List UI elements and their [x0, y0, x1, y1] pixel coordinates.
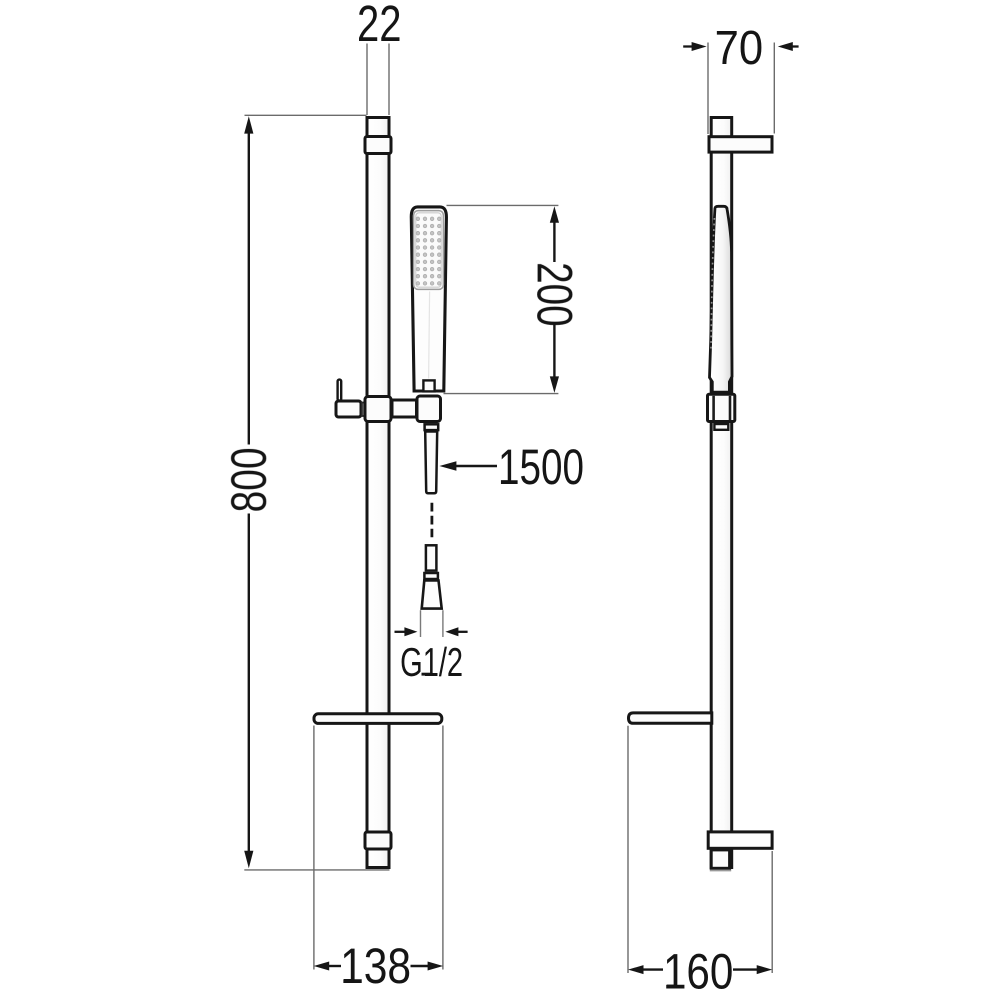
dimension 200 leader top: [447, 204, 559, 206]
extension line 160 right: [771, 851, 773, 973]
thread outline left: [420, 610, 422, 637]
dimension 800 line lower segment: [248, 514, 250, 852]
dimension 800 arrow up: [244, 116, 253, 133]
extension line 22 right: [388, 44, 390, 116]
dimension G1/2 left arrow: [395, 631, 406, 633]
extension line 138 right: [442, 726, 444, 970]
hose upper segment: [425, 432, 437, 494]
holder arm: [392, 400, 417, 417]
holder hose nub (side): [714, 424, 728, 430]
dimension 70 left arrow: [683, 45, 692, 47]
holder (side): [708, 394, 735, 421]
bottom flange (front): [365, 832, 391, 849]
leader line top (800 dim, upper): [245, 114, 367, 116]
top flange (front): [365, 137, 391, 154]
bottom nub (side): [711, 850, 729, 868]
dimension 200 line upper: [553, 222, 555, 263]
slider block on rail: [365, 397, 391, 422]
extension line 138 left: [313, 726, 315, 970]
holder inner right line: [729, 396, 732, 421]
holder inner left line: [712, 396, 715, 421]
svg-text:22: 22: [357, 0, 402, 52]
dimension 138 left arrow: [314, 962, 330, 971]
extension line 70 left: [707, 43, 709, 135]
top wall plate (side): [709, 137, 772, 152]
bottom wall plate (side): [708, 832, 772, 848]
spray nozzle dots: [416, 217, 441, 285]
svg-text:G1/2: G1/2: [400, 639, 463, 685]
svg-text:160: 160: [663, 944, 734, 1000]
hand shower face plate: [414, 211, 444, 290]
dimension 200 arrow down: [550, 376, 559, 393]
dimension 800 arrow down: [244, 851, 253, 868]
slider lever arm: [336, 401, 361, 417]
blade nozzle scallops: [711, 218, 714, 352]
svg-text:800: 800: [221, 447, 277, 512]
thread outline right: [442, 610, 444, 637]
dimension 200 arrow up: [550, 206, 559, 223]
extension line 160 left: [627, 726, 629, 973]
hose break dashed line: [430, 503, 433, 538]
svg-text:138: 138: [340, 938, 411, 994]
svg-text:200: 200: [527, 262, 583, 327]
dimension 1500 arrow: [439, 461, 456, 470]
svg-text:70: 70: [715, 22, 764, 75]
hose end cone: [422, 580, 442, 608]
dimension 160 left arrow: [628, 965, 644, 974]
hand shower blade (side profile): [710, 206, 733, 392]
hand shower inlet square: [423, 380, 434, 391]
svg-text:1500: 1500: [498, 439, 584, 495]
hose lower segment: [426, 545, 437, 570]
extension line 70 right: [773, 43, 775, 134]
soap shelf (side): [629, 713, 712, 723]
dimension 200 leader bottom: [444, 393, 559, 395]
dimension 70 right arrow: [792, 45, 799, 47]
rail (front view vertical slide bar): [367, 118, 389, 868]
hand shower holder (front): [417, 396, 441, 422]
slider lever tab: [338, 380, 342, 401]
slider lever connector: [362, 403, 366, 417]
rail (side view): [711, 118, 732, 868]
soap shelf (front): [314, 714, 442, 724]
extension line 22 left: [366, 44, 368, 116]
dimension 200 line lower: [553, 324, 555, 378]
dimension 160 right arrow: [757, 965, 773, 974]
hand shower body (front): [411, 207, 446, 391]
leader line bottom (800 dim, lower): [244, 869, 389, 871]
handle shading line: [429, 292, 430, 379]
bottom nub shadow line: [710, 870, 731, 872]
dimension 800 line upper segment: [248, 133, 250, 445]
dimension 138 right arrow: [428, 962, 444, 971]
hose end collar: [424, 573, 438, 579]
hose nut below holder: [425, 424, 439, 430]
dimension G1/2 right arrow: [458, 631, 468, 633]
